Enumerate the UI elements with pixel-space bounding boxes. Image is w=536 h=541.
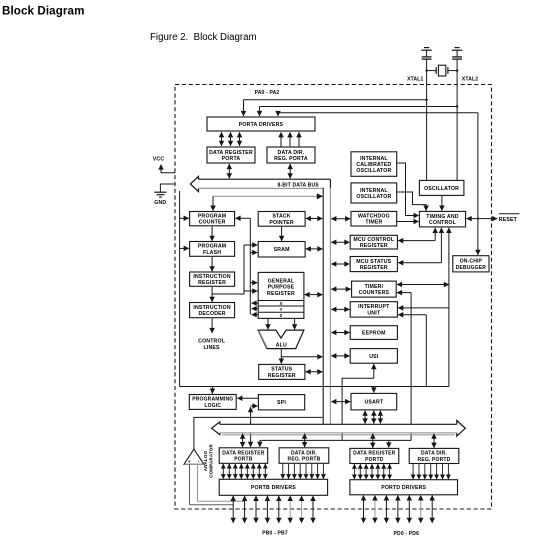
svg-text:X: X [279, 301, 282, 306]
svg-text:EEPROM: EEPROM [362, 330, 386, 336]
wire core link line B [212, 245, 257, 294]
svg-text:PD0 - PD6: PD0 - PD6 [394, 531, 420, 537]
wire oscillator to timing [441, 196, 443, 211]
capacitor C2 [452, 57, 462, 59]
bus vertical data bus [323, 179, 330, 424]
block PROGRAM COUNTER [190, 212, 235, 226]
wire PA2 reset to debugger [477, 113, 479, 255]
svg-text:DATA DIR.: DATA DIR. [278, 150, 305, 156]
svg-text:OSCILLATOR: OSCILLATOR [356, 168, 391, 174]
svg-text:TIMER/: TIMER/ [365, 284, 384, 290]
svg-text:REG. PORTB: REG. PORTB [288, 457, 321, 463]
svg-text:PROGRAM: PROGRAM [198, 244, 226, 250]
block INTERNAL OSCILLATOR [351, 183, 397, 203]
block WATCHDOG TIMER [351, 211, 397, 226]
svg-text:REGISTER: REGISTER [268, 373, 296, 379]
svg-text:PORTB DRIVERS: PORTB DRIVERS [251, 485, 296, 491]
wire SRAM to bus [306, 248, 323, 250]
wire control lines [198, 318, 226, 351]
wire watchdog to bus [331, 218, 350, 220]
svg-text:MCU STATUS: MCU STATUS [356, 259, 391, 265]
wire XTAL1 [407, 59, 426, 180]
block PROGRAM FLASH [190, 242, 235, 257]
svg-text:STATUS: STATUS [271, 367, 292, 373]
wire portb dir reg to drivers arrows [283, 464, 324, 479]
svg-text:PORTD DRIVERS: PORTD DRIVERS [381, 485, 426, 491]
node PB0 - PB7 label [262, 531, 288, 537]
block OSCILLATOR [419, 180, 464, 195]
wire USI to bus [331, 355, 349, 357]
block STACK POINTER [258, 212, 305, 227]
wire SPI port feed [251, 406, 258, 447]
svg-text:DATA DIR.: DATA DIR. [291, 450, 317, 456]
page title [2, 5, 85, 18]
wire timing to MCU status register [398, 228, 441, 263]
figure caption [150, 32, 257, 43]
wire GPR to ALU left [267, 319, 269, 330]
svg-text:SRAM: SRAM [274, 247, 290, 253]
wire instruction register to decoder [211, 287, 213, 302]
svg-text:INTERNAL: INTERNAL [360, 156, 388, 162]
svg-text:ANALOG: ANALOG [203, 450, 208, 471]
svg-text:COUNTERS: COUNTERS [359, 290, 390, 296]
node PA0 - PA2 label [255, 90, 280, 96]
svg-text:Y: Y [279, 307, 282, 312]
svg-text:OSCILLATOR: OSCILLATOR [424, 186, 459, 192]
block INSTRUCTION DECODER [190, 303, 235, 318]
svg-text:+: + [188, 459, 191, 464]
wire internal oscillator to timing [397, 192, 426, 211]
svg-text:INSTRUCTION: INSTRUCTION [193, 274, 230, 280]
svg-text:ON-CHIP: ON-CHIP [460, 259, 483, 265]
alu U1 [258, 330, 304, 349]
wire PORTA drivers to data register (3 double arrows) [222, 132, 240, 146]
svg-text:UNIT: UNIT [367, 310, 380, 316]
svg-text:PORTD: PORTD [365, 457, 384, 463]
wire PA2 line [278, 113, 478, 116]
ground (XTAL1 cap) [421, 48, 431, 57]
wire EEPROM to bus [331, 332, 349, 334]
ground GND [154, 184, 175, 206]
svg-text:XTAL1: XTAL1 [407, 77, 423, 83]
wire USI to port pins net [342, 364, 374, 440]
svg-text:INTERNAL: INTERNAL [360, 188, 388, 194]
block DATA REGISTER PORTB [219, 448, 268, 464]
svg-text:DECODER: DECODER [198, 311, 225, 317]
svg-text:USART: USART [365, 400, 384, 406]
dashed chip boundary [175, 85, 492, 510]
svg-text:GND: GND [154, 200, 166, 206]
wire USART to bus [331, 401, 350, 403]
svg-text:VCC: VCC [153, 157, 165, 163]
block STATUS REGISTER [259, 364, 305, 379]
svg-text:XTAL2: XTAL2 [462, 77, 478, 83]
wire XTAL2 [457, 59, 478, 180]
wire MCU control register to bus [331, 241, 349, 243]
capacitor C1 [422, 57, 432, 59]
svg-text:CONTROL: CONTROL [198, 339, 226, 345]
wire program counter feed from bus [213, 196, 322, 210]
svg-text:PORTA: PORTA [222, 156, 241, 162]
wire internal calibrated oscillator to timing [397, 163, 419, 216]
svg-text:TIMING AND: TIMING AND [426, 214, 459, 220]
wire GPR to bus [305, 294, 323, 296]
wire interrupt unit pin line [398, 315, 426, 387]
block USI [350, 349, 397, 364]
svg-text:MCU CONTROL: MCU CONTROL [353, 237, 395, 243]
wire long internal line [180, 387, 449, 394]
wire USART to bus arrows [365, 411, 380, 424]
wire timer/counters pin line [397, 293, 411, 441]
block INTERRUPT UNIT [350, 302, 397, 317]
svg-text:LOGIC: LOGIC [204, 403, 221, 409]
svg-text:Block Diagram: Block Diagram [2, 5, 85, 18]
wire stack pointer to SRAM [281, 227, 283, 241]
svg-text:REGISTER: REGISTER [198, 280, 226, 286]
svg-text:DATA REGISTER: DATA REGISTER [209, 150, 253, 156]
wire MCU status register to bus [331, 263, 349, 265]
wire interrupt unit to bus [331, 308, 349, 310]
block MCU CONTROL REGISTER [350, 235, 397, 249]
wire RESET [467, 214, 520, 223]
op-amp analog comparator [184, 444, 214, 478]
wire DATA DIR REG PORTA to data bus [289, 164, 291, 178]
wire watchdog to timing [397, 221, 419, 223]
wire portd register to drivers arrows [354, 464, 389, 479]
block PORTB DRIVERS [219, 479, 327, 495]
svg-text:LINES: LINES [204, 345, 221, 351]
wire timing to MCU control register [398, 228, 435, 241]
wire comparator input AIN0 [190, 464, 234, 505]
svg-text:REGISTER: REGISTER [360, 265, 388, 271]
wire analog comparator output [194, 417, 323, 449]
wire bus branch to program counter and flash [180, 191, 189, 387]
svg-text:POINTER: POINTER [269, 220, 293, 226]
wire DATA REGISTER PORTA to data bus [228, 164, 230, 178]
svg-text:PB0 - PB7: PB0 - PB7 [262, 531, 288, 537]
wire PD pin arrows [364, 495, 433, 522]
wire PB pin arrows [233, 496, 313, 523]
block DATA REGISTER PORTA [207, 147, 255, 163]
svg-text:COUNTER: COUNTER [199, 220, 226, 226]
svg-text:DATA REGISTER: DATA REGISTER [222, 450, 264, 456]
svg-text:PA0 - PA2: PA0 - PA2 [255, 90, 280, 96]
wire PA0 line [244, 99, 428, 116]
svg-text:CALIBRATED: CALIBRATED [356, 162, 391, 168]
svg-text:WATCHDOG: WATCHDOG [358, 214, 390, 220]
wire PA1 line [260, 105, 459, 116]
svg-text:SPI: SPI [277, 400, 286, 406]
svg-text:-: - [198, 459, 200, 464]
svg-text:STACK: STACK [272, 214, 290, 220]
block SRAM [258, 242, 305, 258]
svg-text:8-BIT DATA BUS: 8-BIT DATA BUS [277, 182, 319, 188]
block SPI [258, 395, 304, 410]
svg-text:REG. PORTD: REG. PORTD [418, 457, 451, 463]
svg-text:COMPARATOR: COMPARATOR [209, 444, 214, 478]
svg-text:INSTRUCTION: INSTRUCTION [193, 305, 230, 311]
svg-text:REGISTER: REGISTER [360, 243, 388, 249]
wire data register portb to bus [242, 434, 244, 448]
wire stack pointer to bus [306, 218, 323, 220]
svg-text:TIMER: TIMER [365, 220, 382, 226]
bus bottom data bus fat arrow [212, 420, 466, 436]
svg-text:PORTB: PORTB [234, 457, 253, 463]
svg-text:GENERAL: GENERAL [268, 278, 295, 284]
node PD0 - PD6 label [394, 531, 420, 537]
block INSTRUCTION REGISTER [190, 272, 235, 286]
block USART [351, 393, 397, 410]
wire data dir reg portd to bus [433, 434, 435, 448]
svg-text:DATA DIR.: DATA DIR. [421, 451, 447, 457]
wire portb register to drivers arrows [223, 464, 265, 479]
wire ALU to status register [281, 349, 322, 363]
ground (XTAL2 cap) [452, 48, 462, 57]
wire SPI to programming logic [237, 397, 258, 399]
crystal Y1 [425, 65, 458, 76]
block PROGRAMMING LOGIC [189, 395, 236, 410]
block PORTD DRIVERS [350, 480, 458, 495]
svg-text:PURPOSE: PURPOSE [268, 285, 295, 291]
wire status register to bus [306, 371, 323, 373]
wire PC to flash [211, 227, 213, 241]
bus 8-BIT DATA BUS (top fat arrow) [190, 176, 330, 191]
wire flash to instruction register [211, 257, 213, 271]
block EEPROM [350, 326, 397, 340]
svg-text:PROGRAMMING: PROGRAMMING [192, 397, 233, 403]
block INTERNAL CALIBRATED OSCILLATOR [351, 152, 397, 177]
svg-text:Z: Z [280, 313, 283, 318]
svg-text:DEBUGGER: DEBUGGER [456, 265, 487, 271]
wire core link line A [236, 218, 259, 314]
block PORTA DRIVERS [207, 117, 315, 131]
wire bottom pin link [260, 440, 411, 447]
svg-text:PORTA DRIVERS: PORTA DRIVERS [239, 122, 284, 128]
svg-text:REG. PORTA: REG. PORTA [274, 156, 308, 162]
block ON-CHIP DEBUGGER [453, 256, 489, 272]
block MCU STATUS REGISTER [350, 257, 397, 272]
block DATA REGISTER PORTD [350, 448, 399, 463]
svg-text:PROGRAM: PROGRAM [198, 214, 226, 220]
wire PORTA dir reg to drivers (3 up arrows) [281, 132, 299, 146]
block GENERAL PURPOSE REGISTERS [258, 272, 304, 318]
svg-text:FLASH: FLASH [203, 250, 221, 256]
block TIMING AND CONTROL [419, 211, 465, 227]
block DATA DIR. REG. PORTB [279, 448, 329, 464]
power VCC [153, 157, 175, 173]
wire data dir reg portb to bus [304, 434, 306, 448]
svg-text:ALU: ALU [276, 342, 287, 348]
svg-text:DATA REGISTER: DATA REGISTER [353, 451, 395, 457]
block DATA DIR. REG. PORTA [267, 147, 315, 163]
svg-text:INTERRUPT: INTERRUPT [358, 304, 390, 310]
wire comparator input AIN1 [198, 464, 245, 501]
svg-text:CONTROL: CONTROL [429, 220, 457, 226]
block DATA DIR. REG. PORTD [409, 448, 459, 463]
svg-text:Figure 2. Block Diagram: Figure 2. Block Diagram [150, 32, 257, 43]
wire data register portd to bus [372, 434, 374, 448]
svg-text:REGISTER: REGISTER [267, 291, 295, 297]
svg-text:USI: USI [369, 354, 379, 360]
wire timer/counters to bus [331, 288, 351, 290]
wire timing long drop line [397, 228, 449, 387]
block TIMER/COUNTERS [352, 281, 397, 297]
svg-text:RESET: RESET [499, 217, 518, 223]
wire GPR to ALU right [294, 319, 296, 330]
svg-text:OSCILLATOR: OSCILLATOR [356, 194, 391, 200]
wire portd dir reg to drivers arrows [413, 464, 448, 479]
